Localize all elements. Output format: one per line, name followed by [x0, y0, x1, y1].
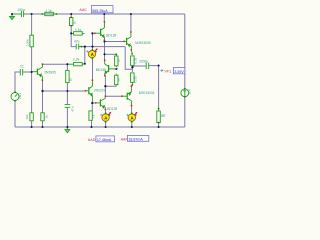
wire T5 collector to rail: [130, 14, 132, 32]
wire 2.2k right up: [84, 47, 86, 64]
wire top rail: [26, 13, 185, 15]
wire T5 emitter to R9: [130, 50, 133, 53]
wire right rail upper: [184, 14, 186, 89]
transistor Q1 2N3905: [36, 69, 38, 75]
pin T5 base: [123, 41, 125, 43]
svg-text:BD139: BD139: [106, 33, 116, 37]
meter AAD value box: [96, 136, 115, 142]
svg-text:MJE15031: MJE15031: [139, 91, 155, 95]
svg-text:3.59V: 3.59V: [174, 70, 184, 74]
generator VG1: [11, 93, 19, 101]
resistor R9 0.33 (upper emitter): [131, 56, 135, 66]
pin T7 collector bottom: [131, 105, 133, 107]
source V2: [181, 89, 189, 97]
transistor T7 MJE15031: [126, 93, 128, 100]
svg-text:C1: C1: [20, 65, 24, 69]
wire bias column upper: [31, 14, 33, 35]
wire ammeter3 to rail: [131, 122, 133, 127]
svg-text:VG1: VG1: [18, 93, 22, 99]
meter AAP value box: [127, 135, 148, 141]
pin T3 base: [85, 90, 87, 92]
node rail r3: [31, 126, 33, 128]
svg-text:BD139: BD139: [96, 68, 106, 72]
pin V2 bottom: [184, 96, 186, 98]
svg-text:A: A: [91, 52, 94, 57]
wire output node to 2200u: [132, 65, 146, 67]
svg-text:AAC: AAC: [79, 8, 87, 12]
ground: [11, 14, 13, 16]
ground bottom rail: [66, 127, 68, 130]
svg-text:8R: 8R: [161, 114, 166, 118]
svg-text:2,2k: 2,2k: [73, 57, 80, 61]
resistor R14 8R load: [157, 111, 161, 123]
pin Q1 emitter: [42, 63, 44, 65]
capacitor C3 47u (horizontal): [76, 44, 81, 50]
resistor R7 2.2k: [67, 63, 84, 65]
pin T2 collector: [104, 21, 106, 23]
pin Q1 collector: [42, 79, 44, 81]
wire divider bottom to column: [105, 85, 116, 87]
pin load top: [158, 108, 160, 110]
pin T6 base: [95, 102, 97, 104]
pin R5 top: [70, 17, 72, 19]
svg-text:17.46mA: 17.46mA: [97, 138, 112, 142]
wire cap47u to node: [79, 46, 125, 48]
svg-text:2200u: 2200u: [139, 60, 148, 64]
node rail r4: [41, 126, 43, 128]
wire R4 column to rail: [42, 91, 44, 127]
svg-text:47u: 47u: [74, 39, 80, 43]
svg-text:A: A: [104, 115, 107, 120]
resistor R2 100k (bias upper): [30, 35, 33, 47]
pin am2 top: [105, 112, 107, 114]
wire T6 emitter to ammeter2: [105, 110, 107, 114]
wire output corner drop: [125, 47, 132, 70]
wire J2 down to T4: [104, 42, 106, 61]
wire load column: [158, 66, 160, 127]
pin load bottom: [158, 122, 160, 124]
node Q1 base: [31, 71, 33, 73]
transistor T5 MJE15030: [126, 38, 128, 45]
node rail load: [158, 126, 160, 128]
node rail am2: [105, 126, 107, 128]
pin T6 emitter: [105, 109, 107, 111]
svg-text:0,33: 0,33: [133, 57, 137, 63]
capacitor C1: [20, 69, 22, 75]
resistor R3 10k (bias lower): [30, 113, 33, 121]
node rail c4: [66, 126, 68, 128]
wire T4 emitter down: [104, 76, 106, 97]
wire VG1 top to C1: [15, 72, 20, 92]
node T2 base: [91, 32, 93, 34]
svg-text:2N3905: 2N3905: [44, 70, 56, 74]
pin am3 bottom: [131, 121, 133, 123]
svg-text:1k: 1k: [116, 78, 120, 82]
wire bottom rail: [15, 126, 185, 128]
pin R13 bottom: [131, 84, 133, 86]
svg-text:1 1k: 1 1k: [75, 28, 82, 32]
svg-text:100k: 100k: [25, 39, 29, 46]
resistor R4 1k (collector load): [41, 113, 44, 121]
node 2.2k top: [84, 63, 86, 65]
wire divider top tap: [105, 53, 117, 55]
pin VG1 bottom: [14, 100, 16, 102]
svg-text:1k: 1k: [45, 115, 49, 119]
pin R1 right: [56, 13, 58, 15]
wire base node down: [31, 72, 33, 113]
pin am2 bottom: [105, 121, 107, 123]
pin T4 emitter: [104, 75, 106, 77]
pin am3 top: [131, 112, 133, 114]
svg-text:2N2219: 2N2219: [94, 89, 106, 93]
wire T6 base: [92, 102, 95, 104]
node Q1 collector: [41, 90, 43, 92]
svg-text:VF1: VF1: [164, 69, 171, 73]
probe VF1 value box: [173, 68, 184, 74]
pin T2 base: [94, 32, 96, 34]
wire ground to C2: [12, 13, 21, 15]
wire VG1 bottom lead: [14, 101, 16, 127]
pin 47u right: [81, 46, 83, 48]
node T3 emitter: [91, 102, 93, 104]
resistor R8 1k (emitter leg): [66, 70, 69, 82]
wire J2 to T5 base: [105, 41, 125, 43]
resistor R12 (T3 emitter): [89, 111, 92, 120]
pin divider top: [115, 53, 117, 55]
node bootstrap rail: [70, 13, 72, 15]
wire right rail lower: [184, 97, 186, 127]
transistor T4 BD140 (vbe multiplier, mirrored): [108, 65, 110, 72]
svg-text:BD139: BD139: [107, 107, 117, 111]
wire T2 collector to rail: [103, 14, 105, 22]
pin R5 bottom: [70, 25, 72, 27]
meter AAC value box: [91, 6, 113, 13]
svg-text:1k: 1k: [69, 78, 73, 82]
pin T7 base: [121, 95, 123, 97]
resistor R5 1k (bootstrap upper): [70, 18, 73, 26]
pin T2 emitter: [104, 39, 106, 41]
node T5 collector rail: [130, 13, 132, 15]
node T4 base: [115, 68, 117, 70]
svg-text:MJE15030: MJE15030: [135, 41, 151, 45]
transistor T6 BD139 (lower driver): [99, 99, 101, 106]
node divider tap: [103, 53, 105, 55]
capacitor C5 2200u output: [146, 63, 149, 69]
wire Q1 collector down: [42, 80, 44, 91]
svg-text:1k: 1k: [92, 114, 96, 118]
wire 2200u to load node: [149, 65, 159, 67]
wire rail to R5: [70, 14, 72, 33]
resistor R11 1k (divider lower): [115, 75, 118, 84]
resistor R13 0.33 (lower emitter): [131, 73, 135, 83]
svg-text:100u: 100u: [17, 8, 25, 12]
svg-text:10k: 10k: [25, 114, 29, 119]
node ground-cap: [11, 13, 13, 15]
node feedback cross: [66, 90, 68, 92]
svg-text:0,33: 0,33: [134, 76, 138, 82]
wire T7 collector to ammeter3: [131, 106, 133, 114]
wire ammeter2 to rail: [105, 122, 107, 127]
pin T4 collector: [104, 59, 106, 61]
resistor R1 1k (top rail): [42, 13, 57, 15]
svg-text:1k: 1k: [116, 59, 120, 63]
svg-text:30V: 30V: [187, 88, 191, 94]
node load top: [158, 65, 160, 67]
transistor T3 2N2219: [88, 87, 90, 94]
pin am1 top: [92, 49, 94, 51]
ammeter AM1: [86, 48, 97, 57]
node T6 collector: [104, 85, 106, 87]
pin VG1 top: [14, 91, 16, 93]
wire 0.33 junction links: [131, 66, 133, 72]
svg-text:47u: 47u: [71, 106, 75, 111]
pin T6 collector: [105, 95, 107, 97]
wire Q1 emitter to node: [42, 63, 67, 65]
capacitor C4 47u (emitter leg): [65, 105, 71, 108]
pin am1 bottom: [92, 57, 94, 59]
node bias top: [31, 13, 33, 15]
wire collector node to T3 base: [43, 90, 86, 92]
pin T3 collector: [92, 79, 94, 81]
wire R3 to rail: [31, 121, 33, 127]
resistor R6 10k (horizontal): [71, 32, 84, 34]
wire T7 base: [105, 95, 121, 97]
capacitor C2 100u: [21, 11, 26, 17]
wire T3 emitter resistor column: [91, 103, 94, 127]
svg-text:565.26uA: 565.26uA: [92, 9, 108, 13]
node rail am3: [131, 126, 133, 128]
node P: [70, 32, 72, 34]
wire C1 to Q1 base node: [23, 71, 32, 73]
ammeter AM3: [126, 112, 137, 121]
resistor R10 1k (divider upper): [115, 56, 118, 66]
node output 0.33: [131, 66, 133, 68]
pin T5 collector: [130, 31, 132, 33]
wire node P to cap47u: [71, 33, 76, 46]
svg-text:18.87mA: 18.87mA: [128, 138, 143, 142]
node J2: [103, 40, 105, 42]
node rail r12: [90, 126, 92, 128]
svg-text:A: A: [131, 115, 134, 120]
wire bias column mid: [31, 47, 33, 72]
pin R1 left: [41, 13, 43, 15]
node 47u junction: [84, 45, 86, 47]
wire T7 top jog to R13: [130, 85, 133, 86]
node ammeter top: [91, 46, 93, 48]
probe VF1 mark: [160, 69, 163, 72]
pin T7 emitter top: [131, 85, 133, 87]
svg-text:1 1k: 1 1k: [45, 9, 52, 13]
ammeter AM2: [100, 112, 111, 121]
pin T5 emitter: [130, 49, 132, 51]
wire T2 emitter to J2: [104, 40, 106, 41]
wire node Q column: [92, 33, 94, 80]
svg-text:AAD: AAD: [88, 138, 96, 142]
svg-text:1k: 1k: [72, 21, 76, 25]
pin R9 top: [131, 53, 133, 55]
pin V2 top: [184, 88, 186, 90]
transistor T2 BD139: [100, 29, 102, 36]
wire emitter node down: [66, 64, 68, 127]
node Q1 emitter: [66, 63, 68, 65]
node T2 collector rail: [103, 13, 105, 15]
